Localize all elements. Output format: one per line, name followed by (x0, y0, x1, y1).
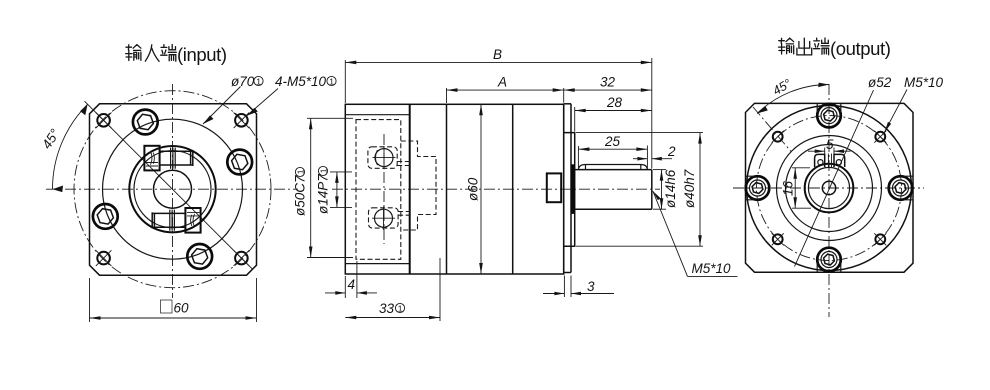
dimension 5 (808, 137, 851, 153)
output collar outer circle (805, 164, 854, 213)
dimension phi50C7 (293, 118, 354, 257)
hex socket screw top-left (133, 110, 158, 135)
svg-text:5: 5 (826, 137, 834, 152)
ring gear joint (446, 104, 448, 274)
corner hole top-right (234, 113, 250, 129)
body section joint (512, 104, 514, 274)
svg-text:(output): (output) (830, 38, 891, 59)
output flange plate (564, 104, 571, 273)
inner circle r43 (786, 145, 873, 232)
tap hole top-left (772, 131, 784, 143)
title 输入端(input) (126, 45, 177, 62)
pilot boss circle (103, 119, 243, 259)
dimension B (345, 47, 652, 169)
dimension 25 (578, 134, 647, 169)
svg-text:ø70: ø70 (231, 74, 255, 89)
corner hole top-left (96, 113, 112, 129)
square flange plate (746, 103, 914, 272)
corner hole bottom-left (96, 250, 112, 266)
svg-text:16: 16 (781, 180, 796, 196)
bolt circle phi52 dash-dot (757, 116, 902, 261)
corner hole bottom-right (234, 250, 250, 266)
phi52 leader (795, 90, 874, 267)
screw boss N (817, 103, 841, 127)
screw boss S (817, 248, 841, 273)
flange screw hole bottom (372, 207, 395, 230)
svg-text:ø60: ø60 (466, 177, 481, 201)
svg-text:1: 1 (329, 77, 334, 87)
svg-text:ø50C7: ø50C7 (293, 175, 308, 216)
vertical centerline (828, 84, 830, 317)
screw boss W (746, 176, 770, 200)
phi70 leader (203, 87, 241, 125)
bolt circle phi70 dash-dot (74, 91, 271, 288)
clamp screw bottom (head right) (152, 208, 200, 233)
shaft keyway slot (578, 165, 647, 170)
45 degree dimension arc (757, 84, 829, 113)
inner circle r52 (777, 136, 882, 241)
svg-text:3: 3 (587, 279, 595, 294)
dimension 33 (345, 258, 440, 321)
svg-text:28: 28 (606, 95, 623, 110)
dimension 2 (633, 144, 676, 161)
svg-text:1: 1 (398, 304, 403, 314)
dimension phi60 (466, 104, 483, 274)
svg-text:B: B (493, 47, 502, 62)
svg-text:A: A (497, 75, 507, 90)
counterbore outline bottom (369, 208, 399, 228)
seal spacer ring black (571, 164, 575, 214)
svg-text:1: 1 (319, 168, 329, 173)
dimension A (447, 75, 564, 104)
hex socket screw bottom-right (187, 244, 212, 269)
M5*10 shaft end label (653, 191, 738, 276)
svg-text:ø14P7: ø14P7 (316, 174, 331, 214)
dimension phi40h7 (576, 133, 703, 247)
dimension 4 (325, 261, 377, 298)
4-M5*10 leader (247, 89, 278, 116)
hex socket screw top-right (227, 150, 252, 175)
hidden connector lines bottom (398, 212, 410, 216)
45 deg diagonal centerline (753, 107, 792, 152)
collar outer circle (129, 146, 215, 232)
svg-text:1: 1 (296, 169, 306, 174)
dimension 16 (781, 168, 812, 208)
horizontal centerline (46, 188, 298, 190)
output collar inner circle (808, 167, 849, 208)
M5*10 top leader (884, 90, 907, 133)
svg-text:ø40h7: ø40h7 (682, 169, 697, 208)
outer pilot circle (747, 106, 912, 271)
input flange lip line top (345, 114, 409, 116)
clamp screw top (head left) (144, 146, 192, 171)
svg-text:2: 2 (667, 144, 676, 159)
hidden bore rectangle phi50 (356, 120, 401, 260)
dimension 60 (90, 278, 257, 322)
flange screw hole top (373, 146, 396, 169)
vertical centerline (172, 84, 174, 298)
coupling plug rectangle (547, 173, 561, 202)
main centerline axis (332, 188, 660, 190)
hidden connector lines top (397, 162, 410, 166)
title 输出端(output) (779, 38, 830, 55)
diagonal centerline 45deg (85, 101, 253, 269)
horizontal centerline (733, 187, 924, 189)
clamp castle on collar (815, 148, 845, 168)
dimension phi14h6 (653, 169, 678, 209)
svg-text:4-M5*10: 4-M5*10 (275, 74, 327, 89)
dimension phi14P7 (316, 166, 353, 214)
svg-text:(input): (input) (177, 44, 227, 65)
svg-text:33: 33 (379, 301, 395, 316)
tap hole top-right (874, 131, 886, 143)
hidden bore staircase (401, 141, 436, 230)
tap hole bottom-right (874, 233, 886, 245)
input flange lip line bottom (345, 263, 409, 265)
svg-text:M5*10: M5*10 (904, 75, 944, 90)
output shaft (575, 170, 652, 210)
phi40 pilot boss (564, 133, 575, 247)
45 degree dimension arc (52, 104, 87, 189)
collar inner circle (134, 151, 211, 228)
tap hole bottom-left (772, 233, 784, 245)
output bore circle (822, 181, 835, 194)
svg-text:1: 1 (256, 77, 261, 87)
svg-text:60: 60 (174, 301, 190, 316)
dimension 28 (575, 95, 652, 132)
counterbore outline top (368, 147, 397, 169)
screw boss E (889, 176, 913, 200)
square flange plate (90, 104, 257, 275)
dimension 32 (564, 75, 652, 92)
flange-body joint (409, 104, 411, 274)
svg-text:ø14h6: ø14h6 (663, 169, 678, 208)
dimension 3 (543, 276, 614, 298)
screw hole bolt centerline (383, 134, 385, 244)
svg-text:25: 25 (604, 134, 621, 149)
input bore circle (154, 170, 192, 208)
svg-text:ø52: ø52 (868, 75, 892, 90)
gearbox body outline (345, 104, 563, 274)
svg-text:M5*10: M5*10 (692, 261, 732, 276)
hex socket screw bottom-left (93, 204, 118, 229)
svg-text:32: 32 (600, 75, 616, 90)
svg-text:4: 4 (348, 277, 356, 292)
